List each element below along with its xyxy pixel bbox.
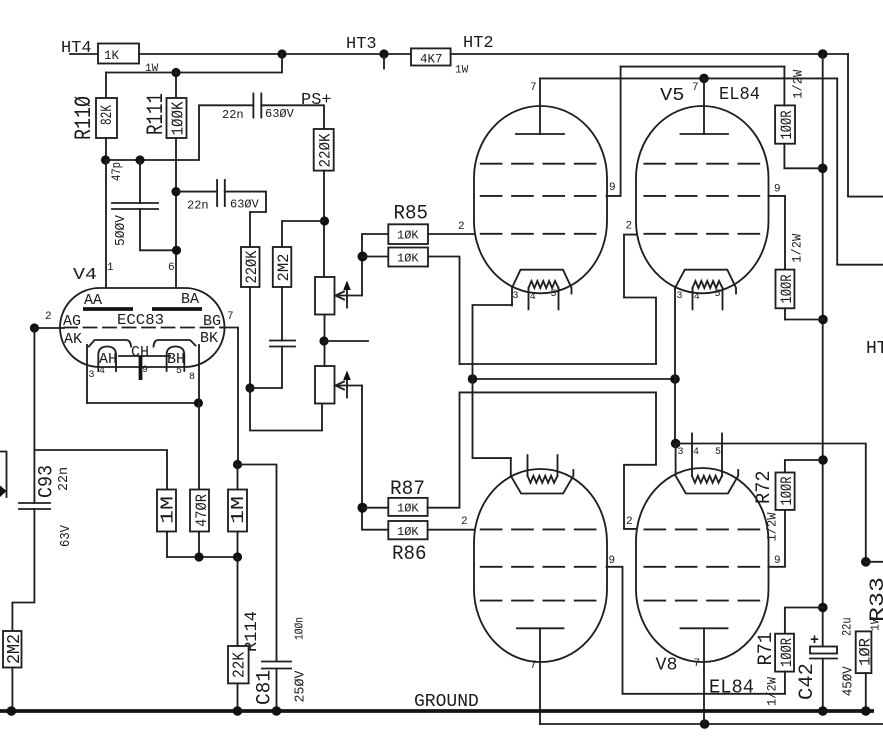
svg-text:ECC83: ECC83: [117, 312, 164, 329]
svg-text:63ØV: 63ØV: [230, 198, 260, 212]
svg-text:R86: R86: [392, 543, 427, 566]
svg-text:1K: 1K: [104, 49, 120, 63]
upper-left EL84 plate lead pin7: [539, 78, 541, 134]
wire R111 top lead: [175, 73, 177, 99]
resistor 2M2 (lower): [3, 631, 22, 668]
svg-text:22K: 22K: [230, 652, 249, 678]
svg-text:R33: R33: [867, 577, 883, 622]
svg-text:22ØK: 22ØK: [317, 133, 335, 167]
wire pot2 wiper down to R87/R86: [362, 386, 388, 530]
svg-text:2M2: 2M2: [5, 634, 25, 664]
node junction (176,191): [171, 187, 180, 196]
wire cap bottom to node (250,388): [250, 347, 282, 389]
resistor 220K (second, divider): [241, 247, 260, 287]
wire upper-left cathode to rail2: [473, 305, 513, 379]
svg-text:22n: 22n: [187, 199, 209, 213]
capacitor C42 bottom plate: [810, 658, 837, 660]
potentiometer pot1 body: [315, 277, 335, 315]
resistor 10K R86: [388, 521, 427, 539]
grid dashed line (both triodes): [64, 327, 222, 329]
V8 plate lead pin7 down: [703, 628, 705, 724]
svg-text:45ØV: 45ØV: [842, 665, 857, 696]
resistor R72 100R: [776, 473, 795, 510]
wire pot2 top to center node: [324, 341, 326, 366]
wire lower 22n cap jog down to 220K (second): [225, 192, 266, 247]
resistor R33 10R: [856, 631, 872, 673]
svg-text:5: 5: [176, 366, 182, 377]
wire branch at y=450 to 1M (left): [34, 450, 167, 490]
V8 plate bar: [681, 627, 728, 629]
upper-left EL84 heater zigzag: [529, 281, 559, 288]
svg-text:22n: 22n: [57, 467, 72, 491]
lower-left EL84 plate lead pin7 down: [539, 628, 541, 724]
svg-text:1ØØn: 1ØØn: [293, 617, 307, 640]
pentode EL84 upper-left: envelope: [474, 106, 607, 293]
pentode V5 EL84: envelope: [636, 106, 769, 293]
wire cathode node to right edge: [866, 561, 883, 563]
node junction (823,319.5): [818, 315, 828, 325]
heater AH arch: [98, 347, 116, 372]
resistor 4K7: [411, 48, 451, 65]
svg-text:22ØK: 22ØK: [243, 250, 261, 283]
wire 4K7 to right edge corner: [451, 53, 848, 55]
V5 grid1 dashes: [644, 233, 759, 235]
triode V4 ECC83 envelope: [60, 288, 225, 367]
svg-text:R72: R72: [753, 471, 776, 505]
wire cathode bottom bus: [87, 402, 199, 404]
svg-text:1ØK: 1ØK: [397, 502, 419, 516]
resistor 1M (left): [157, 490, 176, 532]
upper-left EL84 grid1 dashes: [481, 233, 596, 235]
svg-text:4: 4: [99, 366, 105, 377]
pot2 wiper arrow: [338, 385, 362, 387]
wire rail2 cathode bus: [473, 378, 676, 380]
svg-text:1W: 1W: [869, 616, 883, 631]
svg-text:1ØØR: 1ØØR: [778, 111, 796, 140]
svg-text:4: 4: [693, 447, 699, 458]
node junction (675.6,443.5): [671, 439, 681, 449]
svg-text:3: 3: [678, 447, 684, 458]
svg-text:1ØK: 1ØK: [397, 252, 419, 266]
V5 heater legs: [692, 288, 694, 309]
node junction (176,72.5): [171, 68, 180, 77]
capacitor 47p plates: [112, 202, 158, 204]
resistor 10K (R85 upper): [388, 224, 428, 244]
upper-left EL84 grid2 dashes: [481, 195, 596, 197]
wire 470R bottom: [198, 532, 200, 558]
wire R85 lower 10K to rail1: [428, 257, 460, 365]
wire R110 top lead: [105, 73, 107, 99]
lower-left EL84 heater legs: [527, 455, 529, 476]
wire 100R top lead to screen feed: [783, 67, 785, 106]
svg-text:2: 2: [45, 311, 52, 323]
wire plate bus y=78.4 (upper pair to OPT): [540, 77, 837, 79]
V8 grid2 dashes: [644, 566, 759, 568]
wire bottom bus y=557: [167, 556, 238, 558]
node junction (822.7,168.3): [818, 164, 828, 174]
wire pot1 wiper up to R85 pair: [362, 234, 388, 296]
capacitor 22n 630V (upper) plates: [252, 94, 254, 118]
capacitor C42 top plate (box): [810, 647, 837, 654]
svg-text:AA: AA: [84, 292, 102, 309]
node junction (198.4,403): [194, 398, 203, 407]
heater series link: [119, 355, 170, 357]
svg-text:V8: V8: [656, 656, 678, 676]
node junction (105,160): [101, 155, 110, 164]
svg-text:1ØK: 1ØK: [397, 229, 419, 243]
V5 plate lead pin7: [703, 78, 705, 134]
wire grid A node down to C93: [33, 328, 35, 503]
svg-text:9: 9: [142, 365, 148, 376]
pot2 adjust arrow up: [346, 375, 348, 398]
node ground junction (276.5,711): [272, 706, 282, 716]
node ground junction (865.8,711): [861, 706, 871, 716]
V5 grid3 dashes: [644, 163, 759, 165]
wire node to 10K (second of R85 pair): [363, 256, 389, 258]
svg-text:7: 7: [530, 660, 537, 672]
wire 220K second bottom to node (250,388): [249, 287, 251, 388]
wire cathode A down: [86, 345, 88, 403]
anode AA bar (thick): [83, 307, 133, 311]
node junction (362.5,256.5): [358, 252, 368, 262]
wire node to R87: [362, 507, 388, 509]
resistor R111 100K: [167, 98, 187, 138]
lower-left EL84 pin9 screen wire to R71: [607, 567, 785, 694]
wire 220K bottom to pot1 top: [323, 171, 325, 277]
wire node (250,388) down and right to pot2 bottom: [250, 388, 322, 431]
svg-text:HT: HT: [866, 339, 883, 359]
wire screen bus x=823 upper: [822, 54, 824, 646]
resistor R114 22K: [228, 646, 249, 683]
svg-text:R111: R111: [143, 93, 169, 135]
svg-text:82K: 82K: [98, 105, 116, 125]
wire rail1 (to V5 grid): [460, 363, 657, 365]
node junction (823,460): [818, 455, 828, 465]
svg-text:1/2W: 1/2W: [765, 677, 780, 706]
wire ground rail (thick): [0, 709, 874, 713]
V5 cathode trapezoid: [675, 270, 736, 294]
node junction (176.5,250.3): [172, 246, 181, 255]
wire cap to PS+ corner down to 220K: [261, 105, 324, 129]
wire V8 grid zigzag path: [624, 392, 656, 529]
svg-text:V4: V4: [73, 266, 97, 285]
wire R86 to lower-left EL84 grid pin2: [428, 529, 477, 531]
node junction (250,388): [245, 383, 254, 392]
wire C42 bottom to ground: [822, 659, 824, 712]
svg-text:5: 5: [715, 289, 721, 300]
svg-text:7: 7: [692, 82, 699, 94]
svg-text:9: 9: [609, 182, 616, 194]
svg-text:7: 7: [694, 658, 701, 670]
node ground junction (11.4,711): [7, 706, 17, 716]
node junction (472.5,379): [468, 374, 478, 384]
svg-text:GROUND: GROUND: [414, 692, 479, 712]
svg-text:25ØV: 25ØV: [294, 670, 309, 703]
svg-text:2: 2: [626, 221, 633, 233]
lower-left EL84 grid2 dashes: [481, 566, 596, 568]
node junction (362.4,507.7): [357, 503, 367, 513]
wire HT3 stub down: [383, 54, 385, 69]
svg-text:22n: 22n: [222, 108, 244, 122]
V5 heater zigzag: [693, 281, 723, 288]
V5 pin9 screen wire: [769, 196, 786, 270]
node junction (237,464.5): [233, 460, 242, 469]
wire down from (282,54) to y=72 bus: [106, 54, 282, 73]
lower-left EL84 grid1 dashes: [481, 528, 596, 530]
wire R110 bottom line down to ECC83 anode A (pin1): [105, 160, 107, 308]
capacitor (coupling, between 2M2 and node 388) plates: [270, 340, 295, 342]
node junction (822.7,54): [818, 49, 828, 59]
node ground junction (822.8,711): [818, 706, 828, 716]
svg-text:C81: C81: [254, 670, 277, 705]
svg-text:EL84: EL84: [709, 677, 754, 699]
svg-text:22u: 22u: [841, 618, 855, 637]
svg-text:1ØR: 1ØR: [857, 638, 875, 666]
svg-text:BK: BK: [200, 330, 218, 347]
svg-text:5ØØV: 5ØØV: [113, 214, 129, 246]
svg-text:6: 6: [168, 262, 175, 274]
wire R72 top to bus: [785, 460, 823, 473]
wire C93 bottom jog to 2M2 (lower): [12, 509, 34, 631]
V8 grid1 dashes: [644, 528, 759, 530]
V8 grid3 dashes: [644, 600, 759, 602]
svg-text:1ØØR: 1ØØR: [778, 638, 796, 667]
connector (input, cut at left edge): [0, 452, 7, 498]
svg-text:8: 8: [189, 372, 195, 383]
resistor 10K R87: [388, 498, 427, 516]
wire screen feed y=66.6 to 100R: [621, 66, 785, 68]
svg-text:1/2W: 1/2W: [791, 70, 806, 99]
resistor 10K (R85 pair lower): [388, 248, 428, 267]
svg-text:1ØØK: 1ØØK: [170, 101, 189, 136]
svg-text:7: 7: [227, 311, 234, 323]
svg-text:1/2W: 1/2W: [765, 512, 780, 541]
svg-text:PS+: PS+: [301, 91, 332, 110]
svg-text:HT4: HT4: [61, 39, 92, 58]
node junction (237.5,557): [233, 552, 242, 561]
svg-text:C93: C93: [36, 465, 59, 498]
wire 1M right top lead: [237, 465, 239, 490]
wire branch from BG line to C81: [238, 465, 277, 662]
upper-left EL84 cathode trapezoid: [512, 270, 572, 306]
resistor 100R (upper-left screen stopper): [775, 105, 795, 143]
pot1 adjust arrow up: [346, 285, 348, 308]
V8 heater legs: [691, 434, 693, 476]
node junction (34.4,328): [30, 323, 39, 332]
svg-text:4K7: 4K7: [420, 53, 443, 67]
svg-text:47ØR: 47ØR: [193, 494, 211, 527]
pentode EL84 lower-left: envelope: [474, 469, 607, 662]
lower-left EL84 plate bar: [517, 627, 564, 629]
V5 grid2 dashes: [644, 195, 759, 197]
node junction (704,78.4): [699, 74, 709, 84]
svg-text:R11Ø: R11Ø: [71, 96, 97, 140]
wire 100R (upper-left screen) bottom to bus: [784, 167, 822, 169]
svg-text:1/2W: 1/2W: [790, 234, 805, 263]
wire C81 bottom to ground: [276, 669, 278, 712]
wire R110 bottom to node (105,160): [105, 138, 107, 160]
wire lower plate bus y=724 to OPT: [540, 723, 883, 725]
svg-text:47p: 47p: [110, 162, 124, 181]
wire grid B pin7 to right then down: [222, 328, 238, 465]
svg-text:9: 9: [774, 555, 781, 567]
wire R71 top to bus: [785, 608, 823, 634]
pentode V8 EL84: envelope: [636, 468, 769, 662]
wire 100R bottom lead: [783, 144, 785, 169]
heater BH arch: [167, 347, 185, 372]
svg-text:1ØØR: 1ØØR: [778, 275, 796, 304]
wire 100R V5 bottom lead: [784, 308, 786, 319]
node junction (282,54): [277, 49, 286, 58]
svg-text:4: 4: [530, 292, 536, 303]
capacitor C93 plates: [19, 502, 50, 504]
svg-text:3: 3: [89, 370, 95, 381]
wire rail2 down to lower-left cathode: [473, 379, 511, 458]
node junction (675,379): [670, 374, 680, 384]
svg-text:1: 1: [107, 262, 114, 274]
svg-text:9: 9: [609, 555, 616, 567]
wire V5 cathode down to rail2: [674, 288, 676, 379]
svg-text:HT2: HT2: [463, 34, 494, 53]
capacitor 22n 630V (lower) plates: [216, 180, 218, 206]
wire down to R114: [237, 557, 239, 646]
svg-text:2: 2: [461, 516, 468, 528]
wire 47p top lead: [139, 160, 141, 203]
V8 cathode trapezoid (inverted): [676, 470, 739, 494]
wire 47p bottom jog to anode-B line: [140, 209, 177, 250]
resistor 220K (PS+ feed): [314, 129, 334, 171]
resistor 1K (HT4 dropper): [98, 44, 139, 64]
wire R87 to rail3: [428, 392, 460, 507]
wire rail2 down to V8 cathode node: [674, 379, 676, 444]
wire V5 grid zigzag path: [624, 235, 656, 364]
cathode BK bracket: [154, 340, 196, 347]
node junction HT3 (384,54) with stub: [379, 49, 388, 58]
svg-text:63ØV: 63ØV: [265, 107, 295, 121]
svg-text:7: 7: [530, 82, 537, 94]
V5 plate bar: [681, 133, 729, 135]
svg-text:R85: R85: [394, 203, 429, 226]
wire anode-B node to lower 22n cap: [176, 191, 217, 193]
wire R71 bottom lead to screen wire: [784, 672, 786, 694]
resistor 2M2 (upper): [273, 247, 292, 287]
V8 pin9 screen wire to R72: [769, 510, 786, 567]
heater center tap pin 9 (thick): [139, 356, 143, 380]
resistor 100R (V5 screen stopper): [776, 270, 795, 309]
wire 2M2 top jog to node (324,221): [282, 221, 325, 247]
resistor R71 100R: [775, 634, 794, 672]
svg-text:4: 4: [694, 292, 700, 303]
svg-text:1ØK: 1ØK: [397, 525, 419, 539]
wire cathode B down: [198, 345, 200, 403]
resistor 470R: [190, 490, 209, 532]
wire plate bus corner to right edge (OPT primary): [837, 78, 883, 264]
svg-text:C42: C42: [796, 663, 819, 700]
wire V8 cathode to R33: [676, 444, 866, 562]
svg-text:BA: BA: [181, 291, 199, 308]
wire 1K to 4K7 along y=54: [139, 53, 411, 55]
node junction (822.8,607.5): [818, 603, 828, 613]
wire 2M2 lower bottom to ground: [11, 668, 13, 712]
svg-text:5: 5: [715, 447, 721, 458]
capacitor C81 plates: [262, 661, 291, 663]
svg-text:1W: 1W: [455, 65, 469, 77]
lower-left EL84 cathode trapezoid (inverted): [511, 458, 574, 493]
wire rail3 (to V8 grid): [460, 391, 657, 393]
wire 1M left bottom: [166, 532, 168, 558]
node junction (324,221): [320, 216, 329, 225]
svg-text:3: 3: [677, 291, 683, 302]
node junction (199,557): [194, 552, 203, 561]
cathode AK bracket: [89, 340, 131, 347]
wire R85 upper 10K to upper-left EL84 grid pin2: [428, 233, 477, 235]
wire R33 bottom to ground: [865, 673, 867, 711]
wire R114 bottom to ground: [237, 683, 239, 711]
wire 100R (V5 screen) bottom to bus: [785, 319, 823, 321]
node junction (140,160): [135, 155, 144, 164]
svg-text:3: 3: [513, 291, 519, 302]
svg-text:V5: V5: [660, 86, 685, 106]
svg-text:1M: 1M: [159, 496, 179, 524]
svg-text:63V: 63V: [59, 524, 74, 547]
wire y=160 bus to 47p and cap C(22n): [106, 105, 254, 160]
wire grid A to left node: [34, 327, 64, 329]
svg-text:1M: 1M: [229, 496, 249, 524]
svg-text:2: 2: [458, 221, 465, 233]
node junction (704.6,724): [700, 719, 710, 729]
lower-left EL84 grid3 dashes: [481, 600, 596, 602]
upper-left EL84 heater legs: [528, 288, 530, 309]
wire pot1 bottom to center node: [324, 315, 326, 342]
svg-text:5: 5: [551, 289, 557, 300]
potentiometer pot2 body: [315, 366, 335, 404]
resistor R110 82K: [96, 98, 117, 138]
node junction (324,341) between pots: [319, 336, 328, 345]
wire 1M right bottom: [237, 532, 239, 558]
wire cathode node down to 470R: [198, 403, 200, 490]
upper-left EL84 plate bar: [516, 133, 564, 135]
upper-left EL84 pin9 screen wire: [607, 67, 621, 196]
svg-text:EL84: EL84: [719, 85, 760, 105]
node junction (865.8,561.8): [861, 557, 871, 567]
upper-left EL84 grid3 dashes: [481, 163, 596, 165]
svg-text:2M2: 2M2: [275, 254, 293, 282]
wire stub right from center node: [324, 340, 368, 342]
wire 2M2 bottom to series cap: [281, 287, 283, 341]
svg-text:HT3: HT3: [346, 35, 377, 54]
svg-text:1ØØR: 1ØØR: [778, 477, 796, 506]
wire HT2 corner to right edge: [848, 54, 883, 197]
wire HT4 to R(1K): [70, 53, 98, 55]
lower-left EL84 heater zigzag: [528, 476, 558, 483]
node ground junction (237.5,711): [233, 706, 243, 716]
V8 heater zigzag: [692, 476, 722, 483]
resistor 1M (right): [228, 490, 247, 532]
anode BA bar (thick): [152, 307, 202, 311]
pot1 wiper arrow: [338, 295, 362, 297]
svg-text:2: 2: [626, 516, 633, 528]
wire R111 bottom line down to ECC83 anode B (pin6): [175, 138, 177, 308]
svg-text:AK: AK: [64, 331, 82, 348]
wire V8 cathode node down into trapezoid: [675, 444, 677, 476]
svg-text:9: 9: [774, 184, 781, 196]
